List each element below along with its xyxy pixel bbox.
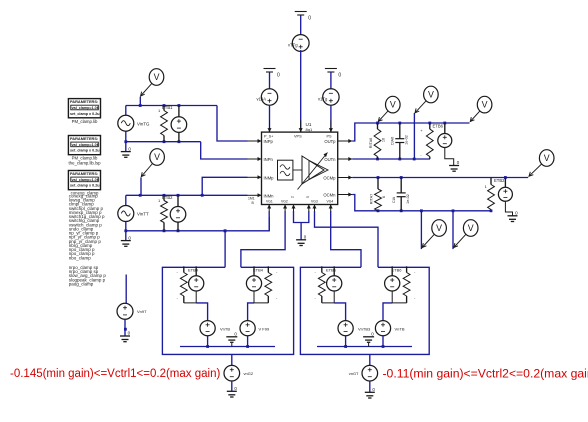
svg-text:v19A: v19A [257, 97, 267, 102]
wire ETB2 source to ground [505, 201, 512, 216]
resistor ETB6 R [426, 129, 433, 157]
wire RB1 stubs [377, 178, 379, 190]
op-amp U1 body [262, 132, 338, 204]
label ETB2b [485, 178, 506, 189]
svg-text:val_clamp=1.0k: val_clamp=1.0k [72, 106, 100, 110]
label Vctrl2 [349, 371, 359, 376]
svg-text:PARAMETERS:: PARAMETERS: [70, 99, 98, 104]
svg-text:INPp: INPp [264, 139, 274, 144]
annotation Vctrl1 range [10, 368, 220, 380]
U1 top pin names [264, 135, 332, 139]
node rail B junctions [377, 176, 507, 179]
U1 top pin VPSA [268, 120, 272, 132]
node inner rail junctions R [344, 345, 384, 348]
ground below Vctrl2 [365, 387, 376, 398]
node inner rail junctions L [206, 345, 249, 348]
svg-text:1e-02: 1e-02 [405, 135, 409, 145]
wire input1 top rail [126, 105, 217, 107]
U1 bottom pin VG4 [329, 205, 333, 212]
wire input1 bottom jog to pin INPn [201, 142, 248, 159]
svg-text:PS: PS [327, 135, 333, 139]
wire R2 stubs [163, 195, 165, 231]
svg-text:ETB6: ETB6 [392, 267, 403, 272]
source EL1 [189, 276, 204, 291]
ground below Vctrl1 [227, 386, 238, 397]
ground below VnGT [120, 331, 131, 342]
svg-text:0: 0 [308, 16, 311, 22]
parameter block P3 caption [71, 191, 99, 196]
ground below ETB6 [449, 160, 460, 171]
svg-text:V: V [482, 100, 488, 110]
wire left box entry [224, 231, 226, 267]
svg-text:the_clamp.lib.lsp: the_clamp.lib.lsp [68, 160, 101, 165]
resistor RL2 [265, 273, 272, 297]
wire Vctrl2 gnd stub [369, 381, 371, 392]
probe V4 rail B end [529, 150, 554, 177]
parameter block P1 [68, 99, 100, 118]
wire VG1 to input2 rail [268, 211, 270, 231]
resistor R2 value [158, 198, 161, 203]
ground right box [363, 332, 374, 347]
resistor RR1 [318, 273, 325, 297]
probe V input1 [141, 69, 164, 96]
svg-text:v1Tg: v1Tg [318, 97, 328, 102]
source Vctrl2 [362, 365, 378, 381]
svg-text:ETB1: ETB1 [162, 105, 173, 110]
wire ER2 bottom node [383, 291, 407, 321]
ground top left [264, 69, 281, 79]
svg-text:6: 6 [382, 196, 386, 198]
label VTTG [288, 43, 298, 48]
model library list [69, 194, 107, 287]
label ETB6 [420, 124, 443, 158]
label VnTB3 [358, 327, 371, 332]
label VinTG [137, 122, 150, 127]
wire EL2 bottom node [248, 291, 269, 321]
node rail A junctions [376, 122, 446, 125]
svg-text:VnTB: VnTB [395, 327, 405, 332]
source VnGT [117, 303, 133, 319]
svg-text:VinTT: VinTT [137, 212, 149, 217]
svg-text:ETB6: ETB6 [433, 124, 444, 129]
wire VG3 to right box [315, 211, 379, 267]
source ETB2 [170, 207, 186, 223]
label RB1 [369, 194, 386, 204]
svg-text:V: V [436, 223, 442, 233]
U1 pin OCMn [323, 193, 352, 198]
svg-text:CIA: CIA [392, 196, 396, 203]
source VL1 [200, 321, 215, 336]
svg-text:Vn9T: Vn9T [137, 309, 147, 314]
svg-text:INMn: INMn [264, 193, 275, 198]
U1 bottom pin VG3 [313, 205, 317, 212]
label CA [391, 135, 409, 145]
wire EL2 top stub [253, 266, 255, 276]
node rail A bottom junctions [376, 158, 415, 161]
label ETB4a [177, 267, 199, 300]
U1 top pin VPS [299, 120, 303, 132]
node input2 junctions [139, 194, 204, 197]
U1 pin INPn [248, 157, 274, 162]
source VR2 [375, 321, 390, 336]
capacitor CA [395, 139, 404, 143]
wire VnG stub [125, 275, 127, 304]
wire VnG gnd stub [124, 319, 127, 336]
U1 pin OUTn [324, 157, 352, 162]
svg-text:16: 16 [382, 138, 386, 142]
svg-text:RITA7: RITA7 [369, 194, 373, 204]
wire probe stub V6 [452, 211, 454, 249]
wire VR1 bottom [345, 336, 347, 347]
wire ETB2R stubs [490, 178, 492, 185]
node input1 top junction [139, 104, 181, 107]
svg-text:0: 0 [277, 73, 280, 79]
source VinTG [118, 115, 134, 131]
svg-text:CIA6: CIA6 [391, 137, 395, 145]
label Vctrl1 [244, 371, 254, 376]
svg-text:5: 5 [306, 196, 310, 198]
wire RL2 stubs [267, 266, 269, 303]
wire OUTp to top rail A [352, 123, 469, 141]
wire ETB6 R stubs [429, 123, 431, 159]
svg-text:-0.145(min gain)<=Vctrl1<=0.2(: -0.145(min gain)<=Vctrl1<=0.2(max gain) [10, 368, 220, 380]
svg-text:VG1: VG1 [266, 200, 273, 204]
wire ER2 top stub [391, 266, 393, 276]
resistor R1 value [158, 108, 161, 113]
wire ER1 top stub [333, 266, 335, 276]
wire probe riser input2 [140, 177, 142, 195]
wire input2 top rail to pin INMn [126, 194, 248, 196]
svg-text:VinTG: VinTG [137, 122, 150, 127]
wire CA leads [399, 123, 401, 159]
wire RR1 stubs [321, 266, 323, 303]
label VPSB [318, 97, 328, 102]
wire VinTG stubs [124, 106, 127, 152]
parameter block P2 [68, 136, 100, 155]
svg-text:ETB2: ETB2 [162, 195, 173, 200]
label VnTBr [395, 327, 405, 332]
source ETB2b [498, 187, 512, 201]
label VPSA [257, 97, 267, 102]
wire R1 stubs [163, 106, 165, 142]
wire ETB6 source to ground [445, 148, 454, 166]
wire CB leads [400, 178, 402, 211]
label VinTT [137, 212, 149, 217]
svg-text:1e-02: 1e-02 [406, 194, 410, 204]
U1 bottom pin CM1 [292, 205, 296, 212]
annotation Vctrl2 range [383, 366, 588, 380]
svg-text:OCMn: OCMn [323, 193, 336, 198]
U1 internal filter symbol [278, 160, 293, 180]
wire VTTG to chip VPS pin [300, 50, 302, 132]
svg-text:VnTB: VnTB [220, 327, 230, 332]
svg-text:ETB6: ETB6 [326, 267, 337, 272]
source Vctrl1 [224, 365, 240, 381]
wire probe stub V5 [420, 211, 422, 249]
U1 pin INMp [248, 175, 275, 180]
svg-text:INPn: INPn [264, 157, 274, 162]
svg-text:P_S+: P_S+ [264, 135, 274, 139]
wire ETB6 source top stub [444, 123, 446, 134]
svg-text:8g1: 8g1 [306, 127, 313, 132]
wire ETB1 stubs [178, 106, 180, 142]
label VnT9 [220, 327, 230, 332]
wire OCMn to rail B bottom [352, 195, 491, 211]
wire ETB2 stubs [177, 195, 179, 231]
resistor R2 [161, 201, 168, 223]
wire gnd to VPSA [269, 72, 271, 89]
svg-text:RITA6: RITA6 [369, 138, 373, 148]
capacitor CB [397, 193, 406, 197]
wire left box inner rail [180, 346, 275, 348]
svg-text:VG4: VG4 [327, 200, 334, 204]
source VinTT [118, 206, 134, 222]
wire probe riser input1 [139, 97, 141, 106]
label ETB6b [392, 267, 417, 300]
wire loop center tap [300, 223, 302, 240]
wire RR2 stubs [406, 266, 408, 303]
resistor RA1 [374, 129, 381, 157]
U1 pin number labels [248, 197, 255, 205]
wire RA1 stubs [377, 123, 379, 159]
wire gnd to VTTG [300, 15, 302, 34]
wire input2 bottom rail [126, 217, 269, 231]
wire VG2 to left box [241, 211, 285, 267]
svg-text:OUTp: OUTp [324, 139, 336, 144]
wire Vctrl1 gnd stub [231, 381, 233, 391]
U1 bottom pin CM2 [307, 205, 311, 212]
wire VG4 to right box [331, 211, 361, 267]
label U1 [306, 122, 313, 132]
wire EL1 bottom node [184, 291, 208, 321]
svg-text:V: V [154, 152, 160, 162]
svg-text:set_clamp x 0.2u: set_clamp x 0.2u [70, 184, 100, 188]
svg-text:VG2: VG2 [281, 200, 288, 204]
svg-text:V: V [544, 153, 550, 163]
source ER1 [327, 276, 342, 291]
probe V5 [422, 220, 446, 248]
label RA1 [369, 138, 386, 148]
ground left box [226, 332, 237, 347]
ground below U1 [296, 235, 307, 246]
probe V1 on rail A [378, 96, 400, 121]
U1 pin INMn [248, 193, 275, 198]
svg-text:0: 0 [338, 73, 341, 79]
ground top right [325, 69, 342, 79]
wire Vctrl1 tap [231, 354, 233, 365]
U1 pin INPp [248, 139, 274, 144]
resistor RR2 [403, 273, 410, 297]
wire VPSA to chip [269, 105, 271, 132]
label ETB6a [315, 267, 337, 300]
U1 pin OCMp [323, 176, 352, 181]
wire input1 bottom rail [126, 141, 201, 143]
svg-text:nbo_clamp: nbo_clamp [69, 255, 92, 260]
probe V3 rail A end [470, 96, 492, 121]
wire right gain box outline [300, 267, 429, 354]
svg-text:paug_clamp: paug_clamp [69, 281, 94, 286]
wire VPSB to chip [330, 105, 332, 132]
svg-text:vnGT: vnGT [349, 371, 359, 376]
svg-text:2: 2 [291, 196, 295, 198]
svg-text:PARAMETERS:: PARAMETERS: [70, 136, 98, 141]
resistor RL1 [180, 273, 187, 297]
label ETB1 [162, 105, 173, 110]
resistor ETB2 R [488, 185, 495, 210]
source ETB1 [171, 117, 187, 133]
svg-text:V: V [428, 90, 434, 100]
svg-text:VnTB3: VnTB3 [358, 327, 371, 332]
probe V input2 [141, 149, 164, 177]
U1 internal VGA amplifier symbol [293, 153, 328, 190]
resistor R1 [161, 111, 168, 136]
svg-text:val_clamp=1.0k: val_clamp=1.0k [72, 178, 100, 182]
wire U1 common-mode loop [294, 211, 309, 223]
wire OUTn rail A bottom [352, 158, 430, 160]
svg-text:V: V [390, 100, 396, 110]
probe V2 on OUTn stub [415, 86, 438, 113]
source VTTG [292, 35, 309, 52]
label CB [392, 194, 410, 204]
svg-text:VG3: VG3 [311, 200, 318, 204]
svg-text:VPS: VPS [294, 135, 302, 139]
label ETB4b [253, 267, 278, 300]
node left entry junction [224, 229, 227, 232]
wire right box inner rail [317, 346, 412, 348]
wire ETB2 source top stub [504, 178, 506, 188]
source ETB6 [438, 134, 452, 148]
svg-text:-0.11(min gain)<=Vctrl2<=0.2(m: -0.11(min gain)<=Vctrl2<=0.2(max gain) [383, 366, 588, 380]
U1 pin OUTp [324, 139, 352, 144]
svg-text:PM_clamp.lib: PM_clamp.lib [72, 119, 98, 124]
wire Vctrl2 tap [369, 354, 371, 365]
source VPSA [261, 89, 277, 105]
label VF99 [259, 327, 270, 332]
ground below VinTT [121, 235, 132, 246]
wire input2 jog to pin INMp [202, 177, 247, 195]
node input1 bottom junction [163, 140, 181, 143]
U1 bottom pin VG2 [283, 205, 287, 212]
svg-text:val_clamp=1.0k: val_clamp=1.0k [72, 143, 100, 147]
svg-text:ETB4: ETB4 [188, 267, 199, 272]
label VnGT [137, 309, 147, 314]
svg-text:OCMp: OCMp [323, 176, 336, 181]
parameter block P2 caption [68, 156, 101, 166]
wire VR2 bottom [382, 336, 384, 347]
ground below VinTG [121, 146, 132, 157]
wire probe stub V2 [413, 113, 415, 159]
resistor RB1 [375, 189, 382, 211]
svg-text:V: V [154, 72, 160, 82]
wire VL2 bottom [247, 336, 249, 347]
wire RL1 stubs [183, 266, 185, 303]
wire VinTT stubs [125, 195, 127, 240]
node rail B bottom junctions [377, 209, 493, 212]
U1 bottom pin names [266, 196, 333, 204]
parameter block P1 caption [72, 119, 98, 124]
svg-text:INMp: INMp [264, 175, 275, 180]
svg-text:V: V [468, 223, 474, 233]
svg-text:OUTn: OUTn [324, 157, 336, 162]
source VL2 [240, 321, 255, 336]
wire left gain box outline [162, 267, 293, 354]
svg-text:V F99: V F99 [259, 327, 270, 332]
label ETB2 [162, 195, 173, 200]
svg-text:set_clamp x 0.2u: set_clamp x 0.2u [70, 149, 100, 153]
probe V6 [454, 220, 478, 248]
parameter block P3 [68, 171, 100, 190]
wire VL1 bottom [207, 336, 209, 347]
wire OCMp rail B top [352, 177, 528, 179]
wire input1 top jog to pin INPp [217, 106, 248, 142]
wire EL1 top stub [195, 266, 197, 276]
U1 top pin VPSB [329, 120, 333, 132]
svg-text:vnG2: vnG2 [244, 371, 254, 376]
source VPSB [323, 89, 339, 105]
wire ER1 bottom node [322, 291, 346, 321]
source EL2 [246, 276, 261, 291]
node input2 bottom junctions [124, 229, 226, 232]
source VR1 [338, 321, 353, 336]
svg-text:vTTg: vTTg [288, 43, 298, 48]
svg-text:ETB2: ETB2 [494, 178, 505, 183]
U1 bottom pin VG1 [267, 205, 271, 212]
ground top center [295, 12, 312, 22]
svg-text:PARAMETERS:: PARAMETERS: [70, 171, 98, 176]
source ER2 [385, 276, 400, 291]
ground below ETB2b [508, 211, 519, 222]
svg-text:set_clamp x 0.2u: set_clamp x 0.2u [70, 112, 100, 116]
wire gnd to VPSB [330, 72, 332, 89]
